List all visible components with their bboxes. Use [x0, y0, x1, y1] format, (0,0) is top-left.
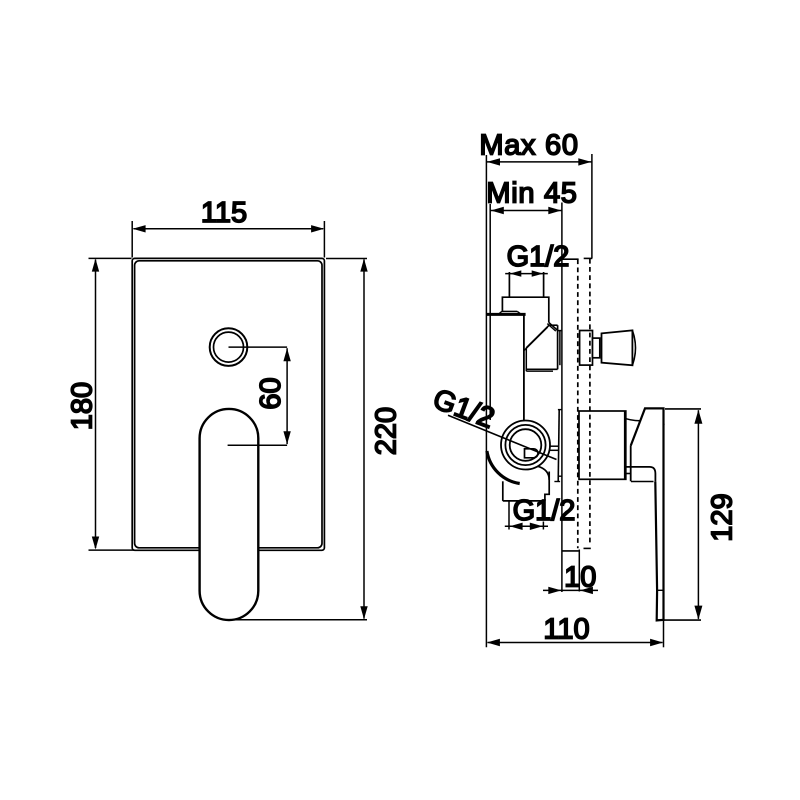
dim 180 line — [95, 260, 97, 549]
diverter button outer circle — [210, 328, 248, 366]
G1/2 leader diagonal — [448, 415, 557, 459]
svg-text:Min 45: Min 45 — [486, 177, 577, 209]
svg-text:Max 60: Max 60 — [479, 130, 578, 162]
flange bevel left — [499, 311, 502, 314]
dim G1/2 bottom ext right — [542, 501, 544, 503]
lever step — [626, 467, 656, 482]
dim 115 line — [134, 228, 324, 230]
svg-text:129: 129 — [707, 493, 739, 541]
bottom housing right corner arc — [538, 466, 550, 480]
dim 10 ext — [578, 550, 580, 592]
dim Min 45 line — [490, 210, 562, 212]
dim 110 line — [488, 642, 663, 644]
diverter block diagonal — [526, 325, 549, 348]
dim 129 ext bottom — [657, 619, 701, 621]
knob body — [602, 330, 633, 365]
lever tick — [657, 589, 663, 591]
bottom housing right edge — [545, 472, 549, 501]
svg-text:10: 10 — [564, 562, 596, 594]
sleeve tick mid — [558, 475, 562, 477]
port flange — [502, 297, 548, 322]
dim Max 60 line — [486, 161, 592, 163]
sleeve line — [558, 410, 559, 482]
svg-text:G1/2: G1/2 — [507, 241, 570, 273]
body right edge — [523, 316, 525, 421]
handle capsule front — [200, 409, 259, 620]
diverter block bottom edge — [526, 368, 557, 370]
dim 180 ext bottom — [89, 549, 135, 551]
dim 60 line — [286, 348, 288, 444]
stem tick upper — [550, 445, 559, 447]
top port G1/2 left side — [508, 272, 510, 297]
dim 220 ext top — [326, 258, 367, 260]
handle lever neck — [626, 473, 631, 475]
svg-text:220: 220 — [371, 407, 403, 455]
knob end cap arc — [632, 330, 635, 365]
body front face / extension line — [485, 155, 487, 647]
svg-text:110: 110 — [543, 614, 589, 646]
handle hub — [579, 411, 626, 479]
diverter button inner circle — [214, 332, 244, 362]
svg-text:G1/2: G1/2 — [513, 495, 576, 527]
Max 60 right extension — [591, 154, 593, 258]
dim 180 ext top — [89, 257, 132, 259]
lever front edge lower — [630, 446, 632, 482]
diverter block left sliver — [525, 348, 527, 371]
sleeve tick bottom — [554, 481, 560, 483]
dim 129 ext top — [665, 408, 701, 410]
wall tick top right — [584, 257, 593, 259]
cartridge circle outer — [501, 421, 550, 470]
bottom housing bottom edge — [503, 500, 546, 502]
wall tick bottom right — [584, 547, 591, 549]
wall plate inner — [135, 261, 322, 548]
dim 60 leader bottom — [228, 444, 288, 446]
block step tick — [558, 330, 562, 332]
cartridge D mark — [525, 449, 539, 458]
dim G1/2 bottom line — [505, 525, 548, 527]
dashed wall line 2 — [589, 259, 591, 545]
dim 10 line — [543, 589, 598, 591]
svg-text:115: 115 — [201, 197, 247, 229]
cartridge circle inner — [510, 429, 542, 461]
cartridge circle mid — [505, 425, 545, 465]
hub right edge thick — [624, 411, 627, 479]
svg-text:180: 180 — [67, 382, 99, 430]
stem tick lower — [550, 449, 559, 451]
lever parting tick upper — [662, 423, 665, 425]
flange bevel right — [517, 311, 521, 314]
diverter block chamfer — [549, 323, 558, 331]
second front edge line — [489, 204, 491, 420]
wall plate outer — [132, 258, 324, 550]
dashed wall line 1 — [577, 259, 579, 548]
dim 220 line — [363, 260, 365, 619]
body lower-left thick arc — [487, 451, 520, 484]
dim G1/2 bottom ext left — [508, 501, 510, 530]
diverter block right edge — [557, 325, 559, 369]
body top edge — [486, 313, 525, 316]
dim G1/2 top line — [505, 273, 548, 275]
dim 110 ext right — [663, 621, 665, 648]
lever step bottom — [631, 481, 654, 483]
sleeve tick top — [558, 409, 562, 411]
flange bottom edge — [502, 310, 518, 312]
knob attach rect — [580, 331, 593, 366]
svg-text:60: 60 — [255, 377, 287, 409]
top port G1/2 right side — [543, 272, 545, 297]
dim 115 ext right — [323, 221, 325, 258]
cartridge front line — [559, 330, 561, 365]
dim 220 ext bottom — [230, 619, 367, 621]
wall tick bottom left — [562, 550, 579, 552]
dim 129 line — [697, 410, 699, 619]
wall tick top left — [562, 258, 579, 260]
hub top-right edge — [626, 419, 641, 421]
knob stem — [593, 338, 600, 358]
bottom housing left edge — [502, 481, 504, 501]
dim 60 leader top — [229, 346, 288, 348]
dim 115 ext left — [131, 221, 133, 258]
handle lever — [631, 408, 664, 620]
Min 45 right extension / plate line — [561, 203, 563, 593]
diverter block top edge — [549, 324, 558, 326]
